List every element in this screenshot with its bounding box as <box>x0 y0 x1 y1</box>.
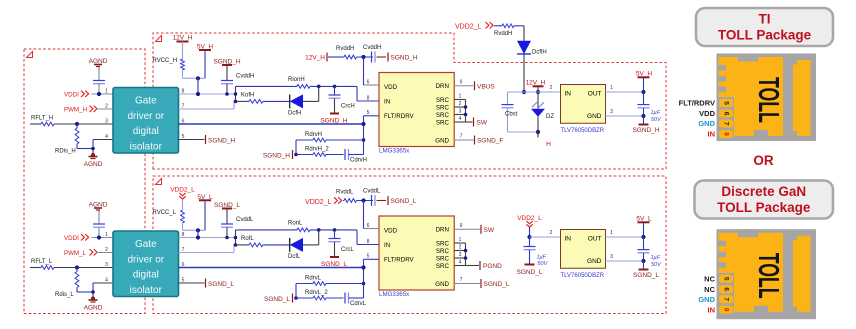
svg-text:IN: IN <box>384 242 390 249</box>
svg-text:driver or: driver or <box>127 111 164 122</box>
svg-text:RFLT_L: RFLT_L <box>31 259 53 265</box>
svg-text:SRC: SRC <box>436 241 450 248</box>
svg-text:DcflH: DcflH <box>532 50 547 56</box>
svg-text:8: 8 <box>723 132 730 136</box>
svg-text:1µF: 1µF <box>537 255 547 261</box>
svg-text:CrcL: CrcL <box>341 247 354 253</box>
svg-text:SRC: SRC <box>436 256 450 263</box>
svg-text:isolator: isolator <box>130 285 163 296</box>
svg-text:TOLL Package: TOLL Package <box>718 28 812 43</box>
svg-text:SW: SW <box>484 227 495 234</box>
svg-text:2: 2 <box>105 247 108 253</box>
svg-text:LMG3365x: LMG3365x <box>379 148 410 155</box>
svg-text:SRC: SRC <box>436 97 450 104</box>
svg-text:DRN: DRN <box>436 227 449 234</box>
svg-text:2: 2 <box>105 104 108 110</box>
svg-text:50V: 50V <box>651 117 662 123</box>
svg-text:VDD: VDD <box>384 84 398 91</box>
svg-text:RofL: RofL <box>241 236 254 242</box>
svg-text:SRC: SRC <box>436 105 450 112</box>
svg-text:PWM_H: PWM_H <box>64 107 87 114</box>
svg-text:Rdis_L: Rdis_L <box>55 292 74 298</box>
svg-text:SGND_L: SGND_L <box>633 272 659 279</box>
svg-text:1: 1 <box>105 89 108 95</box>
svg-text:RdrvH_2: RdrvH_2 <box>305 147 329 153</box>
svg-text:CvddH: CvddH <box>236 74 254 80</box>
svg-text:SRC: SRC <box>436 112 450 119</box>
svg-text:Discrete GaN: Discrete GaN <box>721 184 806 199</box>
svg-text:RvddH: RvddH <box>336 46 354 52</box>
svg-text:SGND_F: SGND_F <box>477 138 503 145</box>
svg-text:RFLT_H: RFLT_H <box>31 116 53 122</box>
svg-text:OR: OR <box>753 153 774 168</box>
svg-text:2: 2 <box>459 245 462 251</box>
svg-text:DZ: DZ <box>546 114 554 120</box>
svg-text:1: 1 <box>105 232 108 238</box>
svg-text:CvddH: CvddH <box>363 45 381 51</box>
svg-text:GND: GND <box>698 295 715 304</box>
svg-text:OUT: OUT <box>588 236 602 243</box>
svg-text:SRC: SRC <box>436 120 450 127</box>
svg-text:TLV76050DBZR: TLV76050DBZR <box>561 128 605 134</box>
svg-text:3: 3 <box>459 252 462 258</box>
svg-text:1: 1 <box>459 237 462 243</box>
svg-text:SRC: SRC <box>436 263 450 270</box>
svg-text:9: 9 <box>460 223 463 229</box>
svg-text:SGND_L: SGND_L <box>516 269 542 276</box>
svg-text:4: 4 <box>459 116 462 122</box>
svg-text:TOLL: TOLL <box>752 77 784 123</box>
svg-text:4: 4 <box>105 134 108 140</box>
svg-text:TLV76050DBZR: TLV76050DBZR <box>561 273 605 279</box>
svg-text:SGND_L: SGND_L <box>264 296 290 303</box>
svg-text:3: 3 <box>610 254 613 260</box>
svg-text:VDD: VDD <box>699 109 715 118</box>
svg-text:CvddL: CvddL <box>236 217 254 223</box>
svg-text:RVCC_L: RVCC_L <box>153 210 177 216</box>
svg-text:7: 7 <box>723 297 730 301</box>
svg-text:RVCC_H: RVCC_H <box>153 58 178 64</box>
svg-text:1: 1 <box>459 94 462 100</box>
svg-text:FLT/RDRV: FLT/RDRV <box>384 113 415 120</box>
svg-text:GND: GND <box>698 119 715 128</box>
svg-text:3: 3 <box>459 109 462 115</box>
svg-text:RDis_H: RDis_H <box>55 149 76 155</box>
svg-text:GND: GND <box>587 113 602 120</box>
svg-text:TI: TI <box>759 12 771 27</box>
svg-text:VDD2_L: VDD2_L <box>305 199 332 206</box>
svg-text:VBUS: VBUS <box>477 84 495 91</box>
svg-text:SGND_L: SGND_L <box>321 261 347 268</box>
svg-text:1µF: 1µF <box>651 255 661 261</box>
svg-text:CdrvL: CdrvL <box>350 301 367 307</box>
svg-text:3: 3 <box>105 119 108 125</box>
svg-text:5: 5 <box>723 101 730 105</box>
svg-text:FLT/RDRV: FLT/RDRV <box>384 257 415 264</box>
svg-text:1: 1 <box>610 230 613 236</box>
svg-text:5: 5 <box>367 110 370 116</box>
svg-text:SGND_L: SGND_L <box>484 281 510 288</box>
svg-text:SGND_H: SGND_H <box>632 127 659 134</box>
svg-text:PGND: PGND <box>483 263 502 270</box>
svg-text:3: 3 <box>610 109 613 115</box>
svg-text:TOLL: TOLL <box>752 253 784 299</box>
svg-text:RdrvL_2: RdrvL_2 <box>305 290 328 296</box>
svg-text:50V: 50V <box>538 261 549 267</box>
svg-text:DcfL: DcfL <box>288 254 301 260</box>
svg-text:RvddL: RvddL <box>336 190 354 196</box>
svg-text:2: 2 <box>550 230 553 236</box>
svg-text:LMG3365x: LMG3365x <box>379 291 410 298</box>
svg-text:RvddH: RvddH <box>494 31 512 37</box>
svg-text:SGND_L: SGND_L <box>391 198 417 205</box>
svg-text:driver or: driver or <box>127 254 164 265</box>
svg-text:2: 2 <box>550 85 553 91</box>
svg-text:8: 8 <box>723 308 730 312</box>
svg-text:12V_H: 12V_H <box>173 35 193 42</box>
svg-text:3: 3 <box>105 262 108 268</box>
svg-text:7: 7 <box>460 134 463 140</box>
svg-text:IN: IN <box>384 99 390 106</box>
svg-text:SGND_L: SGND_L <box>208 281 234 288</box>
svg-text:RdrvL: RdrvL <box>305 276 322 282</box>
svg-text:VDD2_L: VDD2_L <box>517 215 542 222</box>
svg-text:AGND: AGND <box>84 161 103 168</box>
svg-text:8: 8 <box>367 96 370 102</box>
svg-text:5: 5 <box>367 254 370 260</box>
svg-text:VDDI: VDDI <box>64 235 79 242</box>
svg-text:VDD2_L: VDD2_L <box>170 187 195 194</box>
svg-text:RionH: RionH <box>288 77 305 83</box>
svg-text:1: 1 <box>610 85 613 91</box>
svg-text:SRC: SRC <box>436 248 450 255</box>
svg-text:VDDI: VDDI <box>64 92 79 99</box>
svg-text:CvddL: CvddL <box>363 189 381 195</box>
svg-text:FLT/RDRV: FLT/RDRV <box>679 99 715 108</box>
svg-text:8: 8 <box>367 239 370 245</box>
svg-text:7: 7 <box>723 122 730 126</box>
svg-text:PWM_L: PWM_L <box>64 250 87 257</box>
svg-text:Gate: Gate <box>135 96 157 107</box>
svg-text:SGND_H: SGND_H <box>208 138 235 145</box>
svg-text:GND: GND <box>587 258 602 265</box>
svg-text:RonL: RonL <box>288 221 303 227</box>
svg-text:SGND_H: SGND_H <box>263 153 290 160</box>
svg-text:50V: 50V <box>651 262 662 268</box>
svg-text:9: 9 <box>460 80 463 86</box>
svg-text:Gate: Gate <box>135 239 157 250</box>
svg-text:Cbst: Cbst <box>505 112 518 118</box>
svg-text:NC: NC <box>704 274 715 283</box>
svg-text:1µF: 1µF <box>651 110 661 116</box>
svg-text:IN: IN <box>565 236 572 243</box>
svg-text:OUT: OUT <box>588 91 602 98</box>
svg-text:2: 2 <box>459 101 462 107</box>
svg-text:SW: SW <box>477 120 488 127</box>
svg-text:AGND: AGND <box>84 305 103 312</box>
svg-text:4: 4 <box>459 260 462 266</box>
svg-text:RdrvH: RdrvH <box>305 132 322 138</box>
svg-text:digital: digital <box>133 270 159 281</box>
svg-text:NC: NC <box>704 285 715 294</box>
svg-text:VDD: VDD <box>384 228 398 235</box>
svg-text:7: 7 <box>460 277 463 283</box>
svg-text:isolator: isolator <box>130 141 163 152</box>
svg-text:SGND_H: SGND_H <box>391 55 418 62</box>
svg-text:VDD2_L: VDD2_L <box>455 24 482 31</box>
svg-text:digital: digital <box>133 126 159 137</box>
svg-text:IN: IN <box>565 91 572 98</box>
svg-text:KofH: KofH <box>241 93 254 99</box>
svg-text:DRN: DRN <box>436 83 449 90</box>
svg-text:IN: IN <box>708 130 716 139</box>
svg-text:6: 6 <box>723 112 730 116</box>
svg-text:H: H <box>546 141 551 148</box>
svg-text:GND: GND <box>435 138 449 145</box>
svg-text:TOLL Package: TOLL Package <box>717 200 811 215</box>
svg-text:IN: IN <box>708 305 716 314</box>
svg-text:12V_H: 12V_H <box>305 55 325 62</box>
svg-text:5: 5 <box>723 277 730 281</box>
svg-text:6: 6 <box>723 287 730 291</box>
svg-text:CdrvH: CdrvH <box>350 158 367 164</box>
svg-text:4: 4 <box>105 278 108 284</box>
svg-text:GND: GND <box>435 281 449 288</box>
svg-text:DcfH: DcfH <box>288 111 301 117</box>
svg-text:CrcH: CrcH <box>341 104 355 110</box>
svg-text:SGND_H: SGND_H <box>320 118 347 125</box>
